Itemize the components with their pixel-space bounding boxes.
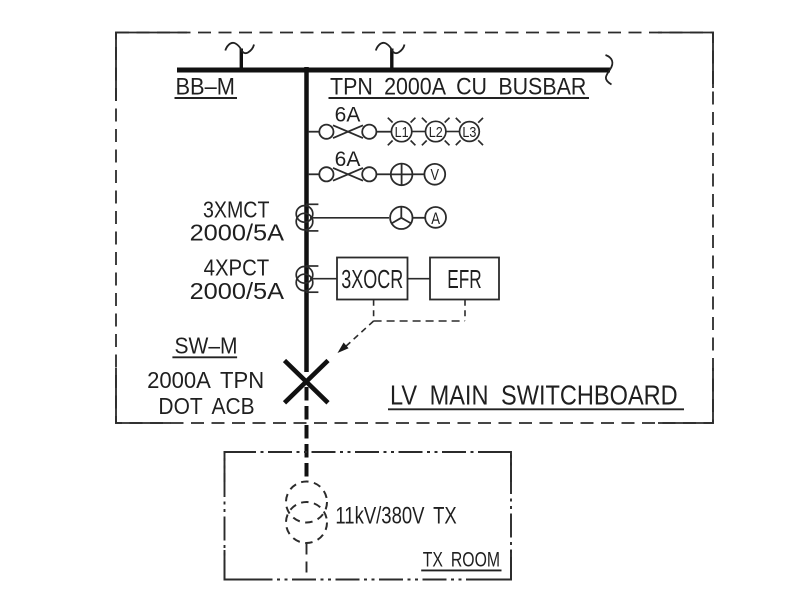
wire: ACB to transformer HV side (thick dashed cable) xyxy=(305,387,309,482)
voltmeter selector switch xyxy=(391,163,413,185)
label LV MAIN SWITCHBOARD (underlined) xyxy=(388,381,684,411)
current transformer 3XMCT (metering CT) xyxy=(296,204,318,231)
wire: bus tap to voltmeter fuse xyxy=(308,173,319,175)
svg-text:TX ROOM: TX ROOM xyxy=(423,548,500,572)
svg-text:EFR: EFR xyxy=(447,264,481,293)
incoming feeder stub 2 with cable squiggle xyxy=(376,43,405,68)
trip wire (dashed) horizontal run xyxy=(374,320,465,322)
wire: fuse to voltmeter selector xyxy=(376,173,390,175)
svg-text:6A: 6A xyxy=(335,103,361,126)
trip wire (dashed) diagonal to ACB with arrow head xyxy=(338,321,374,353)
busbar break squiggle at right end xyxy=(606,55,613,85)
svg-text:L1: L1 xyxy=(395,123,409,140)
wire: selector to voltmeter xyxy=(412,173,424,175)
wire: L1 to L2 xyxy=(412,131,426,133)
svg-text:11kV/380V TX: 11kV/380V TX xyxy=(335,502,456,529)
indicator lamp L3 xyxy=(456,118,483,145)
svg-text:V: V xyxy=(431,167,440,184)
label SW-M (switch name, underlined) xyxy=(172,333,237,359)
TX room enclosure (dash-dot-dot boundary) xyxy=(225,452,512,580)
current transformer 4XPCT (protection CT) xyxy=(296,266,318,292)
transformer TX 11kV/380V (two dashed circles) xyxy=(286,482,327,544)
wire: CT to ammeter selector xyxy=(310,217,389,219)
relay EFR (earth fault relay) xyxy=(430,258,499,300)
svg-text:TPN 2000A CU BUSBAR: TPN 2000A CU BUSBAR xyxy=(330,72,586,99)
ammeter A xyxy=(425,207,446,228)
svg-text:2000/5A: 2000/5A xyxy=(190,221,285,247)
ammeter selector switch xyxy=(390,207,412,229)
label BB-M (busbar name, underlined) xyxy=(175,72,238,99)
main vertical feeder wire from busbar to ACB xyxy=(304,67,309,372)
wire: selector to ammeter xyxy=(413,217,426,219)
fuse 6A (voltmeter circuit) xyxy=(319,167,376,181)
svg-text:6A: 6A xyxy=(335,148,361,171)
svg-text:2000A TPN: 2000A TPN xyxy=(147,366,264,393)
wire: L2 to L3 xyxy=(446,131,460,133)
wire: transformer LV side tail (dashed) xyxy=(306,544,308,579)
svg-text:L3: L3 xyxy=(462,123,476,140)
busbar BB-M (TPN 2000A CU) xyxy=(177,68,610,73)
svg-text:L2: L2 xyxy=(429,123,443,140)
svg-text:SW–M: SW–M xyxy=(175,333,238,359)
svg-text:BB–M: BB–M xyxy=(176,72,235,99)
svg-text:DOT ACB: DOT ACB xyxy=(158,393,254,419)
indicator lamp L2 xyxy=(422,118,450,146)
relay 3XOCR (overcurrent relay) xyxy=(337,258,408,300)
label TPN 2000A CU BUSBAR (underlined) xyxy=(329,72,590,99)
svg-text:4XPCT: 4XPCT xyxy=(204,254,270,280)
indicator lamp L1 xyxy=(388,118,416,146)
trip wire (dashed) from 3XOCR xyxy=(373,300,375,321)
LV main switchboard enclosure (dashed boundary) xyxy=(116,33,713,424)
wire: CT to relay 3XOCR xyxy=(310,278,337,280)
voltmeter V xyxy=(424,164,445,185)
air circuit breaker SW-M (X symbol) xyxy=(285,361,329,403)
incoming feeder stub 1 with cable squiggle xyxy=(225,43,254,68)
label TX ROOM (underlined) xyxy=(421,548,501,572)
wire: fuse to lamp L1 xyxy=(376,131,391,133)
trip wire (dashed) from EFR xyxy=(464,300,466,321)
svg-text:LV MAIN SWITCHBOARD: LV MAIN SWITCHBOARD xyxy=(390,381,678,411)
svg-text:3XMCT: 3XMCT xyxy=(203,197,269,223)
fuse 6A (lamp circuit) xyxy=(319,125,376,139)
wire: bus tap to lamp fuse xyxy=(308,131,319,133)
wire: 3XOCR to EFR xyxy=(408,278,431,280)
svg-text:A: A xyxy=(431,209,440,228)
svg-text:2000/5A: 2000/5A xyxy=(190,279,285,305)
svg-text:3XOCR: 3XOCR xyxy=(341,265,403,294)
